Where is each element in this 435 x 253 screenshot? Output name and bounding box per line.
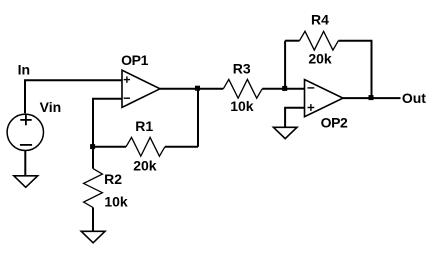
- svg-text:Out: Out: [402, 90, 426, 106]
- svg-text:20k: 20k: [308, 50, 332, 66]
- svg-text:OP1: OP1: [121, 52, 148, 68]
- svg-text:In: In: [18, 61, 30, 77]
- svg-text:R3: R3: [233, 61, 251, 77]
- svg-text:10k: 10k: [230, 98, 254, 114]
- svg-text:Vin: Vin: [40, 99, 62, 115]
- svg-text:R2: R2: [104, 171, 122, 187]
- svg-text:R1: R1: [135, 118, 153, 134]
- svg-text:R4: R4: [311, 12, 329, 28]
- svg-text:10k: 10k: [104, 194, 128, 210]
- svg-text:20k: 20k: [133, 157, 157, 173]
- svg-text:OP2: OP2: [321, 115, 348, 131]
